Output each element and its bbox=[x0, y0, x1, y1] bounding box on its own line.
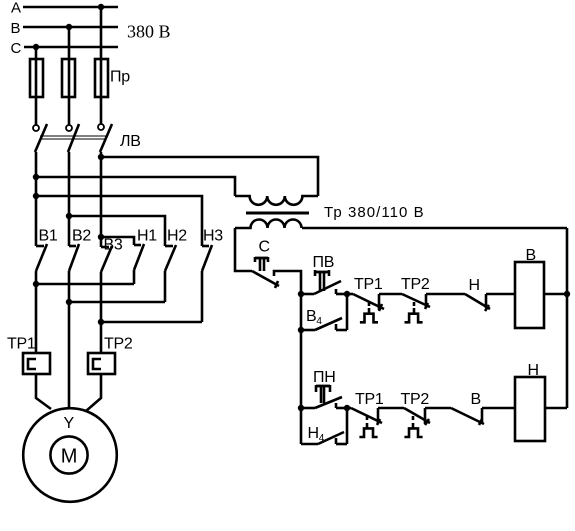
junction PN branch bbox=[298, 405, 304, 411]
svg-text:М: М bbox=[61, 446, 78, 468]
wire to TR1 contact bbox=[347, 293, 353, 296]
fuse Pr pole 3 bbox=[95, 59, 108, 97]
thermal element TR2 bottom bbox=[404, 416, 422, 437]
junction pole 2 bottom row bbox=[66, 299, 72, 305]
thermal heater TR1 bbox=[23, 353, 50, 374]
svg-text:Тр 380/110 В: Тр 380/110 В bbox=[324, 204, 425, 221]
svg-text:Пр: Пр bbox=[110, 69, 130, 86]
wire pole 3 to contact H1 bbox=[101, 237, 134, 245]
wire pole 1 drop from C bbox=[35, 47, 38, 125]
junction pole 3 bottom row bbox=[98, 319, 104, 325]
wire TR1 to TR2 top row bbox=[379, 293, 402, 296]
junction PV/V4 node bbox=[344, 291, 350, 297]
motor M outer circle bbox=[23, 408, 117, 502]
contact B1 bbox=[36, 244, 47, 284]
svg-text:В: В bbox=[11, 20, 21, 37]
thermal element TR1 bottom bbox=[359, 416, 377, 437]
contact TR2 top row bbox=[402, 294, 430, 309]
svg-text:ПВ: ПВ bbox=[313, 254, 335, 271]
svg-text:ТР2: ТР2 bbox=[104, 336, 133, 353]
junction pole 1 to transformer bbox=[33, 174, 39, 180]
contact H2 bbox=[165, 245, 176, 302]
wire TR1 to TR2 bottom row bbox=[378, 407, 404, 410]
junction pole 1 to H3 bbox=[33, 193, 39, 199]
switch LV linkage bar bbox=[40, 136, 106, 139]
svg-text:Н1: Н1 bbox=[137, 228, 157, 245]
contact B3 bbox=[101, 246, 112, 322]
svg-text:Н: Н bbox=[469, 277, 480, 294]
transformer core bbox=[246, 212, 309, 215]
contact H1 bbox=[134, 244, 144, 284]
wire phase C bus bbox=[24, 46, 118, 49]
contact TR1 top row bbox=[353, 294, 384, 311]
svg-text:Y: Y bbox=[64, 415, 75, 432]
svg-text:А: А bbox=[11, 0, 21, 16]
switch LV pole 1 blade bbox=[35, 124, 47, 152]
contact V interlock bottom row bbox=[451, 408, 484, 425]
switch LV pole 2 blade bbox=[68, 124, 79, 152]
svg-text:380 В: 380 В bbox=[127, 22, 171, 42]
thermal heater TR2 bbox=[88, 353, 115, 374]
pushbutton PN actuator bbox=[316, 385, 330, 403]
wire TR2 to V contact bottom bbox=[425, 407, 451, 410]
svg-text:Н2: Н2 bbox=[167, 228, 187, 245]
thermal element TR2 top bbox=[405, 302, 423, 322]
wire pole 1 to heater TR1 bbox=[35, 284, 38, 353]
wire row H1 return bbox=[36, 283, 134, 286]
switch LV pole 3 blade bbox=[100, 124, 112, 152]
wire pole 3 to transformer primary right bbox=[101, 157, 318, 196]
svg-text:В4: В4 bbox=[306, 308, 322, 327]
pushbutton PV actuator bbox=[315, 270, 329, 291]
svg-text:ТР1: ТР1 bbox=[355, 391, 384, 408]
svg-text:ТР1: ТР1 bbox=[7, 336, 36, 353]
wire pole 3 below switch bbox=[100, 152, 103, 247]
contact H interlock top row bbox=[465, 294, 490, 311]
svg-text:Н: Н bbox=[528, 362, 539, 379]
switch LV pole 3 hinge circle bbox=[98, 124, 104, 130]
wire secondary right to bus bbox=[302, 227, 567, 230]
svg-text:ТР1: ТР1 bbox=[354, 276, 383, 293]
fuse Pr pole 2 bbox=[62, 59, 75, 97]
junction pole 3 to H1 bbox=[98, 234, 104, 240]
svg-text:ТР2: ТР2 bbox=[401, 391, 430, 408]
junction PN/N4 node bbox=[344, 405, 350, 411]
wire phase B bus bbox=[23, 26, 118, 29]
svg-text:Н4: Н4 bbox=[308, 425, 325, 444]
wire secondary left down to stop button bbox=[235, 228, 252, 271]
wire pole 2 drop from B bbox=[68, 27, 71, 125]
wire TR2 to motor bbox=[86, 374, 101, 411]
wire pole 3 to heater TR2 bbox=[100, 322, 103, 353]
junction pole 2 to H2 bbox=[66, 213, 72, 219]
junction V4 branch bbox=[298, 327, 304, 333]
pushbutton PV NO contact bbox=[301, 281, 347, 294]
coil V bbox=[515, 262, 544, 328]
svg-text:Н3: Н3 bbox=[203, 228, 223, 245]
svg-text:С: С bbox=[259, 239, 270, 256]
wire V contact to coil N bbox=[482, 407, 515, 410]
wire H contact to coil V bbox=[486, 293, 515, 296]
wire pole 2 below switch bbox=[68, 152, 71, 246]
svg-text:ЛВ: ЛВ bbox=[120, 133, 141, 150]
switch LV pole 1 hinge circle bbox=[33, 125, 39, 131]
wire phase A bus bbox=[23, 6, 118, 9]
junction on C line bbox=[33, 44, 39, 50]
junction pole 3 to transformer bbox=[98, 154, 104, 160]
switch LV pole 2 hinge circle bbox=[66, 125, 72, 131]
transformer secondary winding bbox=[235, 220, 302, 229]
pushbutton C NC contact blade bbox=[252, 271, 279, 288]
wire TR1 to motor bbox=[36, 374, 51, 409]
wire to TR1 bottom contact bbox=[347, 407, 351, 410]
contact B2 bbox=[69, 244, 79, 302]
wire TR2 to H contact bbox=[426, 293, 465, 296]
contact TR1 bottom row bbox=[351, 408, 382, 425]
wire pole 1 to contact H3 bbox=[36, 196, 202, 246]
svg-text:ТР2: ТР2 bbox=[401, 276, 430, 293]
wire pole 1 below switch bbox=[35, 152, 38, 246]
svg-text:В3: В3 bbox=[104, 237, 123, 254]
coil N bbox=[515, 377, 545, 441]
motor M inner circle bbox=[50, 436, 87, 473]
contact TR2 bottom row bbox=[404, 408, 430, 425]
svg-text:В: В bbox=[471, 391, 481, 408]
contact N4 self-hold bbox=[301, 408, 347, 444]
svg-text:С: С bbox=[11, 40, 22, 57]
wire C contact to left bus bbox=[274, 271, 301, 294]
svg-text:В2: В2 bbox=[72, 228, 91, 245]
pushbutton C (stop) actuator bbox=[255, 257, 268, 271]
wire pole 1 to transformer primary left bbox=[36, 177, 235, 196]
contact H3 bbox=[202, 245, 212, 322]
svg-text:В: В bbox=[526, 247, 536, 264]
wire left control bus bbox=[300, 294, 303, 444]
wire coil N to right bus bbox=[546, 407, 567, 410]
wire right bus bbox=[566, 228, 569, 408]
pushbutton PN NO contact bbox=[301, 397, 347, 408]
wire row H3 return bbox=[101, 321, 202, 324]
fuse Pr pole 1 bbox=[30, 59, 43, 97]
junction on A line bbox=[98, 4, 104, 10]
contact V4 self-hold bbox=[301, 294, 347, 330]
wire coil V to right bus bbox=[544, 293, 567, 296]
svg-text:ПН: ПН bbox=[313, 369, 335, 386]
svg-text:В1: В1 bbox=[39, 228, 58, 245]
wire row H2 return bbox=[69, 301, 165, 304]
wire pole 2 to contact H2 bbox=[69, 216, 165, 246]
wire pole 2 to motor bbox=[68, 302, 71, 409]
junction pole 1 bottom row bbox=[33, 281, 39, 287]
junction right bus bbox=[564, 291, 570, 297]
wire pole 3 drop from A bbox=[100, 7, 103, 124]
transformer primary winding bbox=[235, 196, 318, 205]
junction left bus top bbox=[298, 291, 304, 297]
thermal element TR1 top bbox=[360, 302, 378, 322]
junction on B line bbox=[66, 24, 72, 30]
